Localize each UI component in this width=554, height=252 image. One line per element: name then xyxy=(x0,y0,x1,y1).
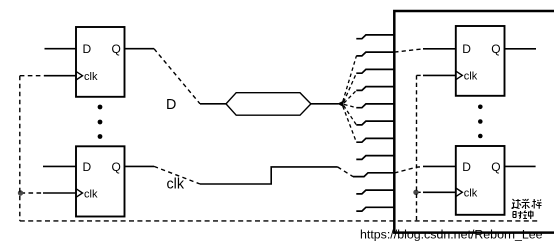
svg-text:D: D xyxy=(166,97,176,113)
ray to tap 2 xyxy=(343,56,357,102)
样 xyxy=(532,199,542,209)
wire U3 clk dashed stub xyxy=(417,74,424,76)
wire U3 D input xyxy=(423,48,456,50)
tap 7 xyxy=(356,138,394,142)
clock net right vertical (dashed) xyxy=(416,75,418,221)
tap 5 xyxy=(356,104,394,108)
wire U4 Q output xyxy=(505,165,536,167)
svg-text:clk: clk xyxy=(464,71,478,83)
wire U1 clk input xyxy=(44,75,76,77)
wire clk dashed to sample tap xyxy=(338,167,354,177)
wire D dashed transition xyxy=(154,49,200,104)
svg-text:Q: Q xyxy=(112,160,121,174)
wire U2 clk input xyxy=(43,192,76,194)
wire clk dashed transition xyxy=(154,166,200,184)
wire dashed tap2 to U3 D xyxy=(394,49,423,52)
svg-text:D: D xyxy=(83,42,92,56)
sample tap lines xyxy=(353,35,394,211)
svg-text:clk: clk xyxy=(84,71,98,83)
wire U3 clk input xyxy=(423,74,456,76)
tap 2 (data sample, feeds U3) xyxy=(356,52,394,56)
fan of dashed sampling rays xyxy=(343,56,357,142)
tap 6 xyxy=(356,121,394,125)
钟 xyxy=(523,211,533,220)
wire dashed tap9 to U4 D xyxy=(394,167,423,173)
flip-flop U2 (bottom-left) xyxy=(76,146,125,216)
arrowhead at fan point xyxy=(337,101,343,107)
svg-text:clk: clk xyxy=(464,188,478,200)
svg-text:D: D xyxy=(462,160,471,174)
svg-text:D: D xyxy=(83,160,92,174)
wire U2 D input xyxy=(43,165,76,167)
采 xyxy=(522,199,530,209)
svg-text:https://blog.csdn.net/Reborn_L: https://blog.csdn.net/Reborn_Lee xyxy=(360,228,543,242)
tap 1 xyxy=(356,35,394,39)
clock net bottom horizontal (dashed) xyxy=(20,220,540,222)
sampler box (right enclosure) xyxy=(394,11,554,233)
ray to tap 4 xyxy=(344,90,356,103)
wire U2 clk dashed from clock net xyxy=(21,192,44,194)
tap 4 xyxy=(356,87,394,91)
tap 10 xyxy=(356,190,394,194)
ray to tap 6 xyxy=(344,106,357,125)
svg-text:clk: clk xyxy=(167,177,185,193)
junction dot right clock net xyxy=(413,190,418,195)
svg-text:Q: Q xyxy=(491,160,500,174)
wire U1 Q output xyxy=(125,48,155,50)
junction dot left clock net xyxy=(18,190,23,195)
时 xyxy=(513,211,523,218)
wire U1 D input xyxy=(45,48,77,50)
flip-flop U1 (top-left) xyxy=(76,27,125,97)
过 xyxy=(512,199,522,209)
wire U2 Q output xyxy=(125,165,155,167)
tap 8 xyxy=(356,156,394,160)
svg-text:D: D xyxy=(462,42,471,56)
wire U4 clk dashed from clock net xyxy=(417,191,424,193)
svg-text:clk: clk xyxy=(84,188,98,200)
wire U1 clk dashed from clock net xyxy=(20,75,44,77)
flip-flop U4 (bottom-right) xyxy=(456,146,505,215)
svg-text:Q: Q xyxy=(112,42,121,56)
ray to tap 5 xyxy=(344,104,356,107)
flip-flop U3 (top-right) xyxy=(456,26,505,96)
svg-text:Q: Q xyxy=(491,42,500,56)
ellipsis dots left xyxy=(98,105,103,139)
wire U4 D input xyxy=(423,165,456,167)
wire U3 Q output xyxy=(505,48,537,50)
ray to tap 3 xyxy=(344,73,357,102)
wire D to eye xyxy=(200,103,226,105)
wire clk waveform xyxy=(200,167,338,184)
tap 9 (clk sample, feeds U4) xyxy=(353,173,394,177)
clock net left vertical (dashed) xyxy=(19,76,21,221)
ray to tap 7 xyxy=(343,106,357,142)
ellipsis dots right xyxy=(478,105,483,139)
label 过采样 (oversampling) drawn glyphs xyxy=(512,199,542,209)
label 时钟 (clock) drawn glyphs xyxy=(513,211,533,220)
eye diagram hexagon xyxy=(226,93,311,116)
wire U4 clk input xyxy=(423,191,456,193)
tap 11 xyxy=(356,207,394,211)
wire eye to fan point xyxy=(311,103,339,105)
tap 3 xyxy=(356,69,394,73)
